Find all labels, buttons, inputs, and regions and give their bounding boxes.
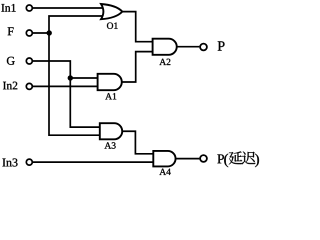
wire A1 output to A2 input 2 xyxy=(122,52,153,82)
label A4 xyxy=(159,169,170,175)
or-gate O1 xyxy=(101,4,122,19)
output terminal P xyxy=(200,44,207,51)
and-gate A1 xyxy=(98,74,122,90)
wire In3 to A4 input 2 xyxy=(33,161,153,163)
label A3 xyxy=(104,142,115,148)
output terminal P(delay) xyxy=(200,155,207,162)
input terminal G xyxy=(26,58,32,64)
wire O1 output to A2 input 1 xyxy=(122,12,153,42)
label In1 xyxy=(1,4,15,12)
and-gate A3 xyxy=(100,123,122,139)
junction dot F xyxy=(47,30,52,35)
input terminal In3 xyxy=(26,159,32,165)
input terminal In2 xyxy=(26,83,32,89)
label O1 xyxy=(107,23,118,29)
wire G branch to A1 input 1 xyxy=(70,77,97,79)
input terminal F xyxy=(26,30,32,36)
wire A4 output to P(delay) terminal xyxy=(175,158,199,160)
wire A3 output to A4 input 1 xyxy=(122,131,153,154)
label A2 xyxy=(159,59,170,65)
label P(delay) close xyxy=(255,154,259,168)
wire F riser (to O1 input 2 and down to A3) xyxy=(49,16,104,135)
label G xyxy=(7,57,15,65)
wire F stub xyxy=(33,32,50,34)
junction dot G xyxy=(68,75,73,80)
and-gate A2 xyxy=(153,39,177,55)
label In3 xyxy=(2,158,17,166)
wire A2 output to P terminal xyxy=(177,46,200,48)
label P xyxy=(218,41,225,50)
hanzi chi xyxy=(242,151,256,164)
input terminal In1 xyxy=(26,5,32,11)
label In2 xyxy=(3,82,17,90)
hanzi yan xyxy=(229,151,242,164)
wire G riser (down to A1 and A3) xyxy=(33,61,100,127)
wire In2 to A1 input 2 xyxy=(33,85,98,87)
wire In1 to O1 input 1 xyxy=(33,7,104,9)
label P(delay) open xyxy=(217,154,224,163)
label A1 xyxy=(105,93,116,99)
label F xyxy=(8,27,14,35)
and-gate A4 xyxy=(153,151,175,167)
